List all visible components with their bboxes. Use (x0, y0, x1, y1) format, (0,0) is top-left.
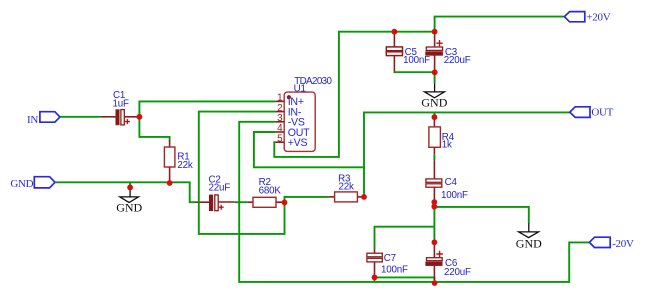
wire C1 junction up to U1 pin1 (139, 101, 275, 116)
wire C7 junction to C6 bottom (375, 277, 435, 280)
svg-text:5: 5 (277, 133, 283, 144)
label R2 value (259, 177, 282, 197)
node junction R3 right (361, 194, 367, 200)
resistor R1 (164, 141, 175, 182)
label C7 value (381, 253, 408, 275)
resistor R2 (247, 197, 282, 207)
svg-text:22k: 22k (177, 160, 192, 171)
node junction C3 bottom (432, 69, 438, 75)
svg-text:220uF: 220uF (444, 267, 471, 278)
capacitor C6 (426, 245, 443, 280)
capacitor C5 (386, 33, 402, 72)
pin 5 stub (275, 141, 284, 143)
label C4 value (441, 177, 468, 201)
label C3 value (444, 47, 471, 66)
capacitor C2 (195, 195, 234, 211)
ground symbol mid (421, 83, 447, 109)
svg-text:100nF: 100nF (403, 55, 430, 66)
port GND (10, 177, 55, 190)
label R3 value (338, 173, 354, 192)
wire to ground symbol mid (434, 75, 436, 84)
node junction C1 right (137, 114, 143, 120)
label R4 value (442, 132, 455, 151)
node junction C5 top (392, 29, 398, 35)
svg-text:100nF: 100nF (381, 264, 408, 275)
svg-text:GND: GND (421, 96, 447, 110)
node junction C6 top (432, 239, 438, 245)
wire IN- net pin2 (199, 112, 285, 234)
svg-text:GND: GND (516, 237, 542, 251)
svg-text:+VS: +VS (288, 137, 308, 149)
svg-text:22uF: 22uF (209, 183, 231, 194)
wire to ground symbol right (434, 207, 528, 223)
svg-text:IN: IN (27, 114, 38, 126)
label C6 value (444, 258, 471, 278)
ground symbol right (516, 223, 542, 251)
svg-text:22k: 22k (339, 181, 354, 192)
label R1 value (177, 152, 192, 171)
svg-text:1uF: 1uF (113, 98, 129, 109)
port -20V (589, 237, 634, 250)
label C5 value (403, 47, 430, 66)
capacitor C3 (426, 33, 443, 70)
svg-text:C7: C7 (384, 253, 396, 264)
wire -VS net pin3 to -20V rail (239, 122, 590, 282)
wire C2 to R2 (235, 201, 248, 203)
wire stub to ground symbol (129, 182, 131, 185)
node junction C4 bottom (431, 199, 437, 205)
svg-text:680K: 680K (259, 186, 282, 197)
svg-text:OUT: OUT (591, 107, 613, 119)
svg-text:1k: 1k (442, 140, 452, 151)
svg-text:GND: GND (10, 178, 33, 190)
wire C7 junction to rail (374, 280, 376, 282)
label C2 value (209, 174, 231, 193)
label C1 value (113, 90, 129, 109)
op-amp U1 TDA2030 (284, 92, 315, 151)
wire GND net (55, 182, 196, 202)
pin 4 stub (275, 131, 284, 133)
node junction C3 top (432, 29, 438, 35)
pin 3 stub (275, 121, 284, 123)
wire branch to C7 (375, 227, 435, 249)
node junction C6 bottom (432, 280, 438, 286)
capacitor C7 (367, 249, 382, 275)
capacitor C4 (426, 160, 442, 200)
wire stub OUT to R4 (433, 112, 435, 114)
pin 2 stub (275, 111, 284, 113)
port +20V (564, 12, 610, 24)
capacitor C1 (101, 110, 137, 125)
svg-text:220uF: 220uF (444, 55, 471, 66)
svg-text:-20V: -20V (612, 238, 634, 250)
wire R4 to C4 (433, 154, 435, 160)
pin 1 stub (275, 100, 284, 102)
port IN (27, 112, 60, 126)
node junction R4 top (432, 114, 438, 120)
svg-text:U1: U1 (294, 83, 306, 94)
svg-text:+20V: +20V (586, 12, 610, 24)
svg-text:100nF: 100nF (441, 190, 468, 201)
node junction R2 right (282, 200, 288, 206)
wire OUT net vertical and to port (364, 112, 570, 196)
wire OUT pin4 (254, 132, 364, 167)
wire C1 junction down to R1 (139, 117, 169, 141)
wire feedback junction to R3 (285, 197, 329, 203)
node junction ground pin (127, 185, 133, 191)
node junction wire branch (431, 204, 437, 210)
wire +VS pin5 to +20V (274, 17, 564, 157)
wire C4 node down to C6 (433, 207, 435, 240)
ground symbol left (116, 189, 142, 215)
wire C5 bottom to C3 bottom (394, 71, 434, 73)
label U1 TDA2030 (294, 76, 333, 94)
node junction C7 bottom (372, 275, 378, 281)
svg-text:GND: GND (116, 201, 142, 215)
node junction R1 bottom (167, 180, 173, 186)
resistor R4 (429, 120, 441, 155)
resistor R3 (329, 192, 364, 202)
port OUT (570, 107, 614, 119)
wire IN to C1 (60, 116, 101, 118)
svg-text:C4: C4 (445, 177, 458, 188)
